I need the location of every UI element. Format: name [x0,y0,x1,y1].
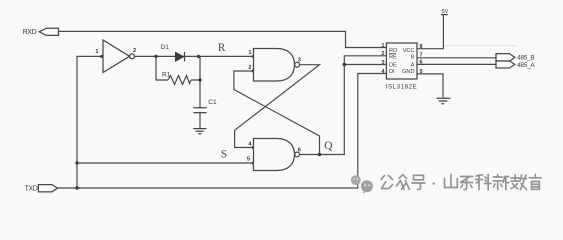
svg-text:5V: 5V [442,9,449,15]
svg-text:2: 2 [133,48,136,54]
svg-text:3: 3 [298,58,301,64]
svg-text:RO: RO [389,48,398,54]
svg-text:7: 7 [420,53,423,59]
svg-text:DE: DE [389,63,397,69]
svg-text:3: 3 [382,60,385,66]
svg-text:2: 2 [382,51,385,57]
svg-text:GND: GND [402,69,414,75]
svg-text:4: 4 [382,69,385,75]
svg-text:485_A: 485_A [517,62,535,69]
svg-text:R: R [218,42,226,54]
svg-text:6: 6 [420,60,423,66]
svg-text:5: 5 [420,69,423,75]
svg-text:R1: R1 [162,71,171,78]
svg-text:1: 1 [382,43,385,49]
svg-text:8: 8 [420,44,423,50]
svg-text:DI: DI [389,69,395,75]
svg-text:B: B [411,54,415,60]
svg-text:1: 1 [95,49,98,55]
svg-text:VCC: VCC [403,48,415,54]
svg-text:Q: Q [324,140,333,152]
svg-text:485_B: 485_B [517,55,534,62]
svg-text:RXD: RXD [23,29,37,36]
svg-text:TXD: TXD [25,186,38,193]
svg-text:2: 2 [248,65,251,71]
svg-text:1: 1 [248,50,251,56]
svg-text:5: 5 [247,157,250,163]
svg-text:ISL3182E: ISL3182E [386,83,418,90]
svg-text:C1: C1 [208,99,217,106]
svg-text:6: 6 [298,148,301,154]
svg-text:D1: D1 [161,44,170,51]
svg-text:S: S [221,149,227,161]
svg-text:RE: RE [389,54,397,60]
svg-text:A: A [411,63,415,69]
